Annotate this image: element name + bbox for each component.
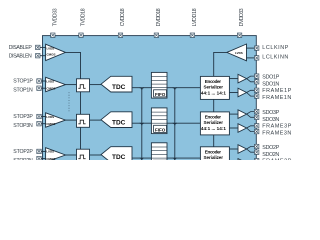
chip body xyxy=(43,36,257,162)
wire comparator to pulse shaper ch3 xyxy=(66,119,77,121)
wire comparator to pulse shaper ch2 xyxy=(66,154,77,156)
pin SDO3P xyxy=(255,109,259,113)
svg-text:CMOS: CMOS xyxy=(46,87,55,91)
svg-text:SDO1P: SDO1P xyxy=(262,75,279,81)
pin TVDD33 xyxy=(52,8,58,26)
pin square DVDD18 xyxy=(154,33,158,37)
wire LCLKINN stub xyxy=(247,57,255,59)
pin FRAME2P xyxy=(255,159,259,163)
svg-text:SDO2P: SDO2P xyxy=(262,145,279,151)
wire TDC to FIFO ch2 xyxy=(132,157,151,159)
wire SDO3 fork xyxy=(247,112,255,118)
wire encoder to FRAME driver ch1 xyxy=(229,92,238,94)
svg-text:LCLKINN: LCLKINN xyxy=(262,55,288,61)
pin SDO1N xyxy=(255,80,259,84)
svg-text:LCLKINP: LCLKINP xyxy=(262,45,288,51)
pin square TVDD33 xyxy=(51,33,55,37)
pulse shaper ch1 xyxy=(77,79,90,92)
wire FRAME1 fork xyxy=(247,90,255,96)
svg-text:STOP2P: STOP2P xyxy=(13,149,33,155)
svg-text:STOP3P: STOP3P xyxy=(13,114,33,120)
wire junction fillets xyxy=(140,88,177,161)
driver FRAME3 xyxy=(238,124,247,133)
svg-text:TDC: TDC xyxy=(112,84,126,91)
svg-text:44:1 ... 14:1: 44:1 ... 14:1 xyxy=(201,126,226,131)
svg-text:Encoder: Encoder xyxy=(205,149,221,154)
dotted continuation line between channel comparators xyxy=(68,92,70,112)
driver FRAME1 xyxy=(238,88,247,97)
TDC ch1 xyxy=(101,76,132,92)
comparator STOP2 input buffer xyxy=(46,148,66,162)
svg-text:STOP2N: STOP2N xyxy=(13,158,33,160)
pin square CVDD18 xyxy=(118,33,122,37)
wire TDC to FIFO ch3 xyxy=(132,122,151,124)
pin STOP3N xyxy=(37,122,41,126)
svg-text:Encoder: Encoder xyxy=(205,79,221,84)
svg-text:LVDD18: LVDD18 xyxy=(192,8,198,26)
svg-text:CMOS: CMOS xyxy=(46,157,55,160)
pulse shaper ch2 xyxy=(77,149,90,162)
svg-text:FRAME2P: FRAME2P xyxy=(262,159,291,161)
svg-text:TVDD18: TVDD18 xyxy=(81,8,87,26)
pin FRAME1P xyxy=(255,88,259,92)
svg-text:CVDD18: CVDD18 xyxy=(120,8,126,26)
pin FRAME3N xyxy=(255,129,259,133)
pin DVDD33 xyxy=(239,8,245,26)
driver SDO2 xyxy=(238,145,247,154)
pin DISABLEP xyxy=(36,45,40,49)
wire comparator to pulse shaper ch1 xyxy=(66,84,77,86)
svg-text:CMOS: CMOS xyxy=(47,53,56,57)
svg-text:LVDS: LVDS xyxy=(47,47,55,51)
svg-text:DVDD18: DVDD18 xyxy=(156,8,162,26)
pin square TVDD18 xyxy=(79,33,83,37)
driver FRAME2 xyxy=(238,159,247,168)
svg-text:CMOS: CMOS xyxy=(46,122,55,126)
comparator STOP3 input buffer xyxy=(46,113,66,127)
FIFO ch2 xyxy=(151,143,167,169)
pin square DVDD33 xyxy=(237,33,241,37)
pin STOP3P xyxy=(37,114,41,118)
svg-text:LVDS: LVDS xyxy=(46,115,54,119)
svg-text:SDO3P: SDO3P xyxy=(262,110,279,116)
wire SDO2 fork xyxy=(247,147,255,153)
wire STOP3P stub xyxy=(40,116,46,118)
driver SDO3 xyxy=(238,110,247,119)
wire encoder to SDO driver ch3 xyxy=(229,113,238,115)
svg-text:FIFO: FIFO xyxy=(155,128,166,133)
svg-text:SDO3N: SDO3N xyxy=(262,117,279,123)
FIFO ch3 xyxy=(151,108,167,134)
wire pulse shaper to TDC ch3 xyxy=(90,119,102,121)
pin STOP2N xyxy=(37,156,41,160)
pin STOP1P xyxy=(37,79,41,83)
pin DISABLEN xyxy=(36,54,40,58)
encoder serializer ch2 xyxy=(200,147,229,170)
wire STOP1P stub xyxy=(40,80,46,82)
wire DISABLEN stub xyxy=(39,55,46,57)
wire DISABLEP stub xyxy=(39,46,46,48)
wire STOP2P stub xyxy=(40,150,46,152)
pulse shaper ch3 xyxy=(77,114,90,127)
svg-text:Encoder: Encoder xyxy=(205,114,221,119)
svg-text:DISABLEN: DISABLEN xyxy=(9,54,32,60)
wire encoder to FRAME driver ch3 xyxy=(229,127,238,129)
svg-text:TVDD33: TVDD33 xyxy=(52,8,58,26)
wire pulse shaper to TDC ch2 xyxy=(90,154,102,156)
wire STOP1N stub xyxy=(40,87,46,89)
wire pulse shaper to TDC ch1 xyxy=(90,84,102,86)
pin DVDD18 xyxy=(156,8,162,26)
svg-text:Serializer: Serializer xyxy=(204,85,224,90)
svg-text:DISABLEP: DISABLEP xyxy=(9,45,33,51)
FIFO ch1 xyxy=(151,72,167,98)
svg-text:DVDD33: DVDD33 xyxy=(239,8,245,26)
svg-text:FRAME1P: FRAME1P xyxy=(262,88,291,94)
pin STOP1N xyxy=(37,86,41,90)
wire: LCLK serializer clock rail xyxy=(214,52,227,160)
svg-text:LVDS: LVDS xyxy=(235,51,243,55)
svg-text:44:1 ... 14:1: 44:1 ... 14:1 xyxy=(201,90,226,95)
pin CVDD18 xyxy=(120,8,126,26)
svg-text:STOP3N: STOP3N xyxy=(13,123,33,129)
svg-text:FRAME1N: FRAME1N xyxy=(262,95,291,101)
pin square LVDD18 xyxy=(190,33,194,37)
wire TDC to FIFO ch1 xyxy=(132,87,151,89)
wire: DISABLE rail xyxy=(66,52,81,160)
encoder serializer ch3 xyxy=(200,112,229,135)
svg-text:LVDS: LVDS xyxy=(46,150,54,154)
driver SDO1 xyxy=(238,74,247,83)
svg-text:TDC: TDC xyxy=(112,119,126,126)
svg-text:Serializer: Serializer xyxy=(204,120,224,125)
wire FRAME2 fork xyxy=(247,161,255,167)
wire FIFO to encoder ch3 xyxy=(167,122,200,124)
pin TVDD18 xyxy=(81,8,87,26)
svg-text:STOP1P: STOP1P xyxy=(13,78,33,84)
comparator STOP1 input buffer xyxy=(46,77,66,91)
TDC ch2 xyxy=(101,147,132,163)
pin FRAME2N xyxy=(255,164,259,168)
pin STOP2P xyxy=(37,149,41,153)
comparator DISABLE input buffer xyxy=(46,44,66,60)
svg-text:SDO2N: SDO2N xyxy=(262,152,279,158)
wire FRAME3 fork xyxy=(247,126,255,132)
wire: FIFO right rail xyxy=(174,88,176,160)
pin SDO2N xyxy=(255,150,259,154)
pin FRAME1N xyxy=(255,94,259,98)
pin FRAME3P xyxy=(255,124,259,128)
pin LVDD18 xyxy=(192,8,198,26)
svg-text:LVDS: LVDS xyxy=(46,79,54,83)
svg-text:FRAME3P: FRAME3P xyxy=(262,124,291,130)
pin LCLKINP xyxy=(255,46,259,50)
wire: FIFO left rail xyxy=(141,88,143,160)
svg-text:SDO1N: SDO1N xyxy=(262,81,279,87)
svg-text:Serializer: Serializer xyxy=(204,155,224,160)
wire FIFO to encoder ch1 xyxy=(167,87,200,89)
wire FIFO to encoder ch2 xyxy=(167,157,200,159)
op-amp LVDS clock receiver xyxy=(227,44,247,61)
wire LCLKINP stub xyxy=(247,47,255,49)
pin SDO2P xyxy=(255,144,259,148)
encoder serializer ch1 xyxy=(200,76,229,99)
svg-text:TDC: TDC xyxy=(112,154,126,160)
svg-text:FIFO: FIFO xyxy=(155,92,166,97)
wire encoder to FRAME driver ch2 xyxy=(229,162,238,164)
pin SDO1P xyxy=(255,74,259,78)
wire encoder to SDO driver ch1 xyxy=(229,78,238,80)
wire SDO1 fork xyxy=(247,76,255,82)
pin SDO3N xyxy=(255,115,259,119)
TDC ch3 xyxy=(101,112,132,128)
svg-text:STOP1N: STOP1N xyxy=(13,87,33,93)
wire encoder to SDO driver ch2 xyxy=(229,148,238,150)
wire STOP3N stub xyxy=(40,123,46,125)
pin LCLKINN xyxy=(255,56,259,60)
svg-text:FRAME3N: FRAME3N xyxy=(262,130,291,136)
wire STOP2N stub xyxy=(40,158,46,160)
